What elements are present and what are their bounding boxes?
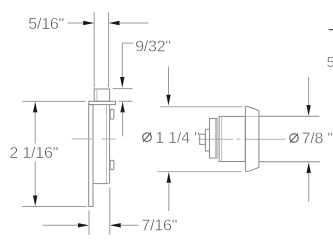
dimension dia 1 1/4 lower tail [168,182,170,211]
dimension 5/16 right tail [119,22,148,24]
left view centerline [72,138,116,140]
dimension 7/16 left extension [88,210,90,235]
left view body right inner line [106,105,108,184]
right view can top edge [259,115,320,117]
left view body right edge [109,105,111,184]
dimension 9/32 lower tail [122,112,124,136]
right view body front [219,116,245,161]
right view flange bezel [245,106,259,171]
dimension dia 1 1/4 up arrowhead [167,172,171,183]
dimension 9/32 vertical tail [121,43,123,78]
dimension 2 1/16 down arrowhead [33,196,37,207]
dimension dia 1 1/4 down arrowhead [166,95,170,106]
left view terminal lower [110,160,114,169]
left view body bottom [93,183,109,185]
dimension 5/16 left arrowhead [83,21,94,25]
right view knurled nut inner line [214,118,216,158]
left view bushing inner line [96,89,98,101]
dimension 7/16 left tail [42,224,78,226]
extension line at shaft top plane [113,88,133,90]
dimension 2 1/16 upper tail [34,112,36,144]
dimension dia 7/8 upper tail [308,77,310,106]
right view knurled nut [210,118,217,158]
extension line left of 5/16 dim [93,12,95,87]
svg-text:1 1/4 ": 1 1/4 " [155,130,199,147]
svg-text:5: 5 [327,54,333,71]
left view terminal upper [110,109,114,119]
dimension 9/32 down arrowhead [120,77,124,88]
dimension 5/16 left tail [68,22,84,24]
svg-text:2 1/16": 2 1/16" [9,145,58,162]
dimension dia 1 1/4 top extension [160,106,242,108]
dimension 2 1/16 top extension [22,100,85,102]
label dia symbol for 1 1/4 [143,133,152,142]
dimension dia 7/8 lower tail [308,173,310,202]
svg-text:5/16": 5/16" [28,16,64,33]
dimension dia 7/8 up arrowhead [307,162,311,173]
svg-text:7/16": 7/16" [141,218,177,235]
right view centerline [198,138,286,140]
left view panel plate [89,105,93,207]
extension line at flange top plane [119,100,133,102]
label dia symbol for 7/8 [290,133,299,142]
dimension dia 1 1/4 upper tail [168,67,170,96]
extension line right of 5/16 dim [108,12,110,87]
dimension 7/16 left arrowhead pointing right into line [110,223,121,227]
dimension 2 1/16 up arrowhead [33,102,37,113]
svg-text:7/8 ": 7/8 " [302,131,333,148]
right view washer [205,129,209,151]
right view body front inner line [221,116,223,161]
right view can bottom edge [259,161,320,163]
left view bushing [94,89,109,101]
dimension 9/32 leader horizontal [122,42,133,44]
dimension 7/16 right extension [109,188,111,236]
dimension 9/32 up arrowhead [120,102,124,113]
dimension 7/16 right arrowhead pointing left into line [78,223,89,227]
svg-text:9/32": 9/32" [135,39,171,56]
dimension 2 1/16 lower tail [34,162,36,197]
leader fragment at top right edge [329,29,333,31]
left view flange bar [89,101,116,104]
right view shaft nub [200,134,206,144]
dimension dia 1 1/4 bottom extension [157,171,241,173]
dimension 2 1/16 bottom extension [22,206,87,208]
dimension 7/16 right tail [120,224,138,226]
dimension dia 7/8 down arrowhead [306,105,310,116]
dimension 5/16 right arrowhead [109,21,120,25]
right view hidden line across flange [246,115,259,117]
